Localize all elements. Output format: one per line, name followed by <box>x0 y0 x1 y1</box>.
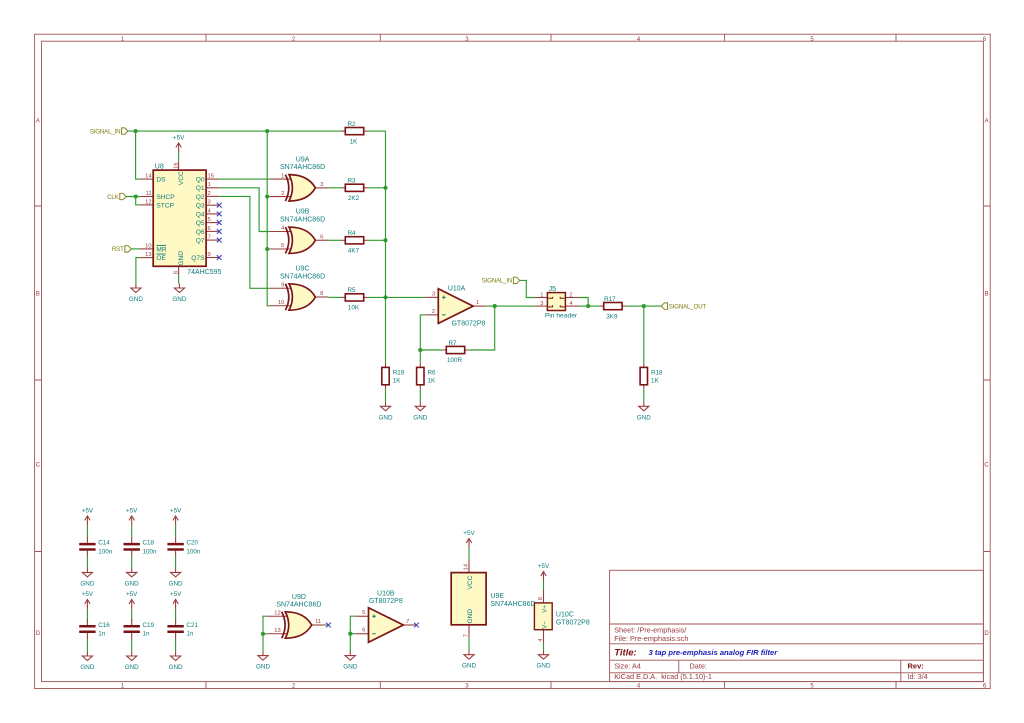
svg-text:R19: R19 <box>393 369 405 376</box>
svg-text:1K: 1K <box>350 138 359 145</box>
XOR gate U9D spare <box>266 594 325 638</box>
svg-text:GND: GND <box>80 664 94 671</box>
svg-text:GND: GND <box>172 296 186 303</box>
svg-text:3K9: 3K9 <box>606 313 618 320</box>
svg-text:GND: GND <box>462 663 476 670</box>
svg-text:GT8072P8: GT8072P8 <box>369 598 403 605</box>
svg-text:GND: GND <box>343 664 357 671</box>
svg-text:OE: OE <box>156 255 166 262</box>
svg-text:B: B <box>985 291 989 297</box>
wire C19 to ground <box>131 639 133 652</box>
svg-text:2: 2 <box>281 191 284 197</box>
svg-text:3: 3 <box>432 291 435 297</box>
junction <box>134 129 138 133</box>
svg-text:Title:: Title: <box>614 647 637 658</box>
ground R6 <box>413 402 427 421</box>
power +5V U9E <box>463 530 475 548</box>
svg-text:U8: U8 <box>155 163 164 170</box>
svg-text:U9D: U9D <box>292 594 306 601</box>
svg-text:Q3: Q3 <box>196 203 205 210</box>
svg-text:7: 7 <box>464 634 470 637</box>
svg-text:12: 12 <box>274 610 280 616</box>
svg-text:Q1: Q1 <box>196 185 205 192</box>
svg-text:+5V: +5V <box>126 591 138 598</box>
ground C19 <box>125 652 139 671</box>
resistor R3 2K2 <box>341 178 368 202</box>
svg-text:File: Pre-emphasis.sch: File: Pre-emphasis.sch <box>614 634 688 643</box>
svg-text:9: 9 <box>281 282 284 288</box>
svg-text:C21: C21 <box>186 622 198 629</box>
power +5V C16 <box>82 591 94 609</box>
ground OE <box>129 284 143 303</box>
wire U9E GND pin <box>468 638 470 650</box>
wire R18 to ground <box>643 389 645 402</box>
junction <box>265 195 269 199</box>
power +5V U8 <box>173 135 185 153</box>
ground U8 <box>172 284 186 303</box>
power +5V C21 <box>170 591 182 609</box>
wire +5V to C21 <box>175 609 177 620</box>
svg-text:R6: R6 <box>428 369 437 376</box>
wire U10C V- pin <box>543 643 545 651</box>
wire C21 to ground <box>175 639 177 652</box>
svg-text:SIGNAL_IN: SIGNAL_IN <box>90 128 121 135</box>
svg-text:5: 5 <box>208 217 211 223</box>
wire R4 out <box>368 239 386 241</box>
svg-text:16: 16 <box>173 163 179 169</box>
svg-text:+5V: +5V <box>538 563 550 570</box>
junction <box>383 295 387 299</box>
svg-text:GND: GND <box>413 414 427 421</box>
svg-text:SHCP: SHCP <box>156 194 175 201</box>
wire J5 pin 4 to R17 <box>579 305 600 307</box>
wire U9D output stub <box>325 624 328 626</box>
svg-text:R2: R2 <box>347 121 356 128</box>
svg-text:+5V: +5V <box>463 530 475 537</box>
svg-text:R3: R3 <box>347 178 356 185</box>
power +5V C14 <box>82 508 94 526</box>
svg-text:R7: R7 <box>448 340 457 347</box>
svg-text:15: 15 <box>208 174 214 180</box>
svg-text:1: 1 <box>281 173 284 179</box>
wire Q1 to U9B input 4 <box>219 188 269 232</box>
svg-text:Q7S: Q7S <box>191 255 205 262</box>
svg-text:6: 6 <box>320 234 323 240</box>
ground C14 <box>80 568 94 587</box>
svg-text:U10C: U10C <box>556 612 574 619</box>
svg-text:VCC: VCC <box>467 575 474 589</box>
wire +5V to U9E VCC <box>468 548 470 560</box>
svg-text:VCC: VCC <box>178 171 185 185</box>
svg-text:GND: GND <box>125 664 139 671</box>
svg-text:2K2: 2K2 <box>348 195 360 202</box>
svg-text:11: 11 <box>146 191 152 197</box>
resistor R4 4K7 <box>341 230 368 254</box>
svg-text:2: 2 <box>569 292 572 298</box>
ground U10C <box>537 650 551 669</box>
svg-text:SIGNAL_IN: SIGNAL_IN <box>482 278 513 285</box>
svg-text:Pin header: Pin header <box>545 312 578 319</box>
junction <box>383 238 387 242</box>
svg-text:SN74AHC86D: SN74AHC86D <box>280 164 325 171</box>
wire +5V to C16 <box>86 609 88 620</box>
svg-text:GND: GND <box>80 580 94 587</box>
capacitor C18 100n <box>124 537 158 557</box>
junction <box>586 304 590 308</box>
svg-text:3: 3 <box>540 301 543 307</box>
svg-text:2: 2 <box>432 309 435 315</box>
hierarchical label SIGNAL_IN (top left) <box>90 128 128 135</box>
no-connect <box>217 238 222 243</box>
capacitor C20 100n <box>167 537 201 557</box>
resistor R6 1K <box>417 363 436 389</box>
junction <box>418 348 422 352</box>
wire R17 to SIGNAL_OUT <box>626 305 661 307</box>
svg-text:Q7: Q7 <box>196 238 205 245</box>
wire SIGNAL_IN vertical bus to gates <box>267 131 269 306</box>
svg-text:2: 2 <box>208 191 211 197</box>
svg-text:SN74AHC86D: SN74AHC86D <box>276 602 321 609</box>
svg-text:Size: A4: Size: A4 <box>614 661 641 670</box>
capacitor C19 1n <box>124 619 155 639</box>
svg-text:KiCad E.D.A. kicad (5.1.10)-1: KiCad E.D.A. kicad (5.1.10)-1 <box>614 672 712 681</box>
wire U10B tied inputs to ground <box>350 616 355 651</box>
svg-text:3: 3 <box>208 200 211 206</box>
svg-text:Id: 3/4: Id: 3/4 <box>908 672 928 681</box>
wire SIGNAL_IN down to U8 pin DS <box>136 131 141 179</box>
svg-text:C20: C20 <box>186 540 198 547</box>
svg-text:U9A: U9A <box>296 157 310 164</box>
wire summing node vertical <box>368 131 386 363</box>
resistor R17 3K9 <box>600 296 627 320</box>
svg-text:1: 1 <box>540 292 543 298</box>
wire C18 to ground <box>131 557 133 568</box>
power +5V U10C <box>538 563 550 581</box>
svg-text:12: 12 <box>145 199 151 205</box>
junction <box>383 186 387 190</box>
junction <box>265 247 269 251</box>
ground U9D <box>256 651 270 670</box>
svg-text:100n: 100n <box>186 548 201 555</box>
no-connect <box>217 220 222 225</box>
svg-text:Q0: Q0 <box>196 177 205 184</box>
wire J5 pin 2 loop to pin 4 <box>579 298 589 307</box>
junction <box>134 194 138 198</box>
svg-text:U9C: U9C <box>296 266 310 273</box>
svg-text:+5V: +5V <box>173 135 185 142</box>
svg-text:U10A: U10A <box>448 286 466 293</box>
svg-text:R5: R5 <box>347 287 356 294</box>
wire +5V to C14 <box>86 525 88 537</box>
svg-text:+5V: +5V <box>170 508 182 515</box>
svg-text:1: 1 <box>208 182 211 188</box>
svg-text:1K: 1K <box>428 377 437 384</box>
svg-text:7: 7 <box>406 619 409 625</box>
junction <box>261 632 265 636</box>
svg-text:GT8072P8: GT8072P8 <box>451 321 485 328</box>
wire R6 to ground <box>419 389 421 402</box>
svg-text:A: A <box>985 118 989 124</box>
svg-text:3 tap pre-emphasis analog FIR: 3 tap pre-emphasis analog FIR filter <box>649 648 779 657</box>
svg-text:11: 11 <box>315 619 321 625</box>
svg-text:MR: MR <box>156 246 166 253</box>
svg-text:C18: C18 <box>143 540 155 547</box>
wire U8 GND pin <box>178 275 180 284</box>
svg-text:STCP: STCP <box>156 202 174 209</box>
hierarchical label CLK <box>107 193 126 201</box>
svg-text:GND: GND <box>129 296 143 303</box>
wire Q0 to U9A input 1 <box>219 178 269 180</box>
wire SIGNAL_IN to J5 pin 1 <box>520 280 535 297</box>
IC U10C GT8072P8 power unit <box>534 590 589 643</box>
svg-text:V−: V− <box>542 621 549 629</box>
svg-text:C14: C14 <box>98 540 110 547</box>
resistor R2 1K <box>341 121 368 145</box>
wire OE to ground <box>136 258 140 284</box>
title block <box>610 570 984 681</box>
XOR gate U9C <box>270 266 329 311</box>
wire R19 to ground <box>385 389 387 402</box>
wire U9A out to R3 <box>329 187 342 189</box>
wire U9D tied inputs to ground <box>263 616 266 651</box>
ground C20 <box>169 568 183 587</box>
power +5V C20 <box>170 508 182 526</box>
no-connect <box>217 212 222 217</box>
svg-text:GND: GND <box>178 251 185 266</box>
wire +5V to C18 <box>131 525 133 537</box>
svg-text:1n: 1n <box>98 631 106 638</box>
svg-text:5: 5 <box>362 610 365 616</box>
svg-text:8: 8 <box>320 291 323 297</box>
op-amp U10A GT8072P8 <box>425 286 486 328</box>
IC U9E SN74AHC86D power unit <box>451 560 535 638</box>
svg-text:Q2: Q2 <box>196 194 205 201</box>
svg-text:J5: J5 <box>549 286 557 293</box>
svg-text:Q4: Q4 <box>196 211 205 218</box>
wire Q2 to U9C input 9 <box>219 196 269 288</box>
svg-text:4K7: 4K7 <box>348 248 360 255</box>
no-connect <box>217 229 222 234</box>
wire R5 out to op-amp <box>368 296 425 298</box>
no-connect <box>217 255 222 260</box>
svg-text:GND: GND <box>169 580 183 587</box>
svg-text:5: 5 <box>281 243 284 249</box>
ground U9E <box>462 650 476 669</box>
wire C14 to ground <box>86 557 88 568</box>
wire +5V to U8 VCC <box>178 152 180 161</box>
ground U10B <box>343 651 357 670</box>
ground C21 <box>169 652 183 671</box>
svg-text:13: 13 <box>145 252 151 258</box>
resistor R19 1K <box>382 363 405 389</box>
svg-text:10: 10 <box>278 300 284 306</box>
svg-text:1n: 1n <box>186 631 194 638</box>
junction <box>348 632 352 636</box>
wire CLK to SHCP/STCP <box>126 197 140 205</box>
wire U9C out to R5 <box>329 296 342 298</box>
svg-text:C: C <box>36 462 41 468</box>
IC U8 74AHC595 shift register <box>140 161 221 276</box>
ground C16 <box>80 652 94 671</box>
power +5V C19 <box>126 591 138 609</box>
svg-text:GT8072P8: GT8072P8 <box>556 619 590 626</box>
wire +5V to U10C V+ <box>543 581 545 590</box>
junction <box>493 304 497 308</box>
svg-text:1n: 1n <box>143 631 151 638</box>
no-connect <box>326 623 331 628</box>
svg-text:3: 3 <box>320 182 323 188</box>
svg-text:U10B: U10B <box>377 591 395 598</box>
svg-text:R18: R18 <box>651 369 663 376</box>
wire C20 to ground <box>175 557 177 568</box>
wire junction down to R6 <box>419 350 421 363</box>
wire U9B out to R4 <box>329 239 342 241</box>
svg-text:R17: R17 <box>604 296 616 303</box>
svg-text:13: 13 <box>274 628 280 634</box>
junction <box>265 129 269 133</box>
svg-text:CLK: CLK <box>107 194 120 201</box>
op-amp U10B spare <box>355 591 416 643</box>
XOR gate U9A <box>270 157 329 202</box>
resistor R18 1K <box>640 363 663 389</box>
svg-text:SIGNAL_OUT: SIGNAL_OUT <box>669 303 707 310</box>
svg-text:C: C <box>984 462 989 468</box>
svg-text:R4: R4 <box>347 230 356 237</box>
svg-text:8: 8 <box>538 597 544 600</box>
ground C18 <box>125 568 139 587</box>
wire +5V to C19 <box>131 609 133 620</box>
svg-text:+5V: +5V <box>82 508 94 515</box>
svg-text:6: 6 <box>208 226 211 232</box>
power +5V C18 <box>126 508 138 526</box>
svg-text:U9E: U9E <box>490 593 504 600</box>
svg-text:GND: GND <box>256 664 270 671</box>
svg-text:D: D <box>36 631 41 637</box>
svg-text:100n: 100n <box>98 548 113 555</box>
svg-text:10: 10 <box>145 243 151 249</box>
wire +5V to C20 <box>175 525 177 537</box>
svg-text:6: 6 <box>362 628 365 634</box>
capacitor C21 1n <box>167 619 198 639</box>
svg-text:C19: C19 <box>143 622 155 629</box>
wire R3 out <box>368 187 386 189</box>
svg-text:14: 14 <box>464 563 470 570</box>
svg-text:Date:: Date: <box>690 661 707 670</box>
wire op-amp out junction down to R7 <box>486 305 534 307</box>
svg-text:100n: 100n <box>143 548 158 555</box>
svg-text:14: 14 <box>145 174 152 180</box>
svg-text:Sheet: /Pre-emphasis/: Sheet: /Pre-emphasis/ <box>614 625 687 634</box>
svg-text:B: B <box>36 291 40 297</box>
svg-text:74AHC595: 74AHC595 <box>187 269 221 276</box>
svg-text:RST: RST <box>112 246 124 253</box>
svg-text:V+: V+ <box>542 605 549 613</box>
svg-text:+5V: +5V <box>82 591 94 598</box>
svg-text:1: 1 <box>476 300 479 306</box>
wire SIGNAL_IN horizontal to R2 <box>128 130 345 132</box>
svg-text:100R: 100R <box>447 357 463 364</box>
svg-text:8: 8 <box>173 271 179 274</box>
svg-text:C16: C16 <box>98 622 110 629</box>
svg-text:D: D <box>984 631 989 637</box>
junction <box>642 304 646 308</box>
hierarchical label SIGNAL_OUT <box>661 303 706 311</box>
svg-text:1K: 1K <box>651 377 660 384</box>
connector J5 pin header <box>535 286 579 320</box>
capacitor C14 100n <box>79 537 113 557</box>
svg-text:GND: GND <box>637 414 651 421</box>
no-connect <box>217 203 222 208</box>
ground R19 <box>379 402 393 421</box>
svg-text:Q6: Q6 <box>196 229 205 236</box>
ground R18 <box>637 402 651 421</box>
svg-text:GND: GND <box>467 609 474 624</box>
svg-text:Q5: Q5 <box>196 220 205 227</box>
svg-text:GND: GND <box>537 663 551 670</box>
svg-text:SN74AHC86D: SN74AHC86D <box>280 216 325 223</box>
hierarchical label SIGNAL_IN (at J5) <box>482 277 520 285</box>
svg-text:+5V: +5V <box>126 508 138 515</box>
svg-text:A: A <box>36 118 40 124</box>
svg-text:1K: 1K <box>393 377 402 384</box>
hierarchical label RST <box>112 246 131 254</box>
capacitor C16 1n <box>79 619 110 639</box>
svg-text:GND: GND <box>169 664 183 671</box>
resistor R5 10K <box>341 287 368 311</box>
XOR gate U9B <box>270 209 329 254</box>
svg-text:U9B: U9B <box>296 209 310 216</box>
wire R7 left to inverting input <box>420 315 442 350</box>
svg-text:10K: 10K <box>348 305 360 312</box>
svg-text:SN74AHC86D: SN74AHC86D <box>490 601 535 608</box>
svg-text:9: 9 <box>208 252 211 258</box>
wire RST to MR <box>131 248 140 250</box>
no-connect <box>414 623 419 628</box>
svg-text:GND: GND <box>125 580 139 587</box>
wire C16 to ground <box>86 639 88 652</box>
svg-text:7: 7 <box>208 235 211 241</box>
svg-text:DS: DS <box>156 177 166 184</box>
svg-text:GND: GND <box>379 414 393 421</box>
svg-text:Rev:: Rev: <box>908 661 924 670</box>
svg-text:+5V: +5V <box>170 591 182 598</box>
svg-text:SN74AHC86D: SN74AHC86D <box>280 273 325 280</box>
resistor R7 100R <box>442 340 469 364</box>
wire down to R18 <box>643 306 645 363</box>
